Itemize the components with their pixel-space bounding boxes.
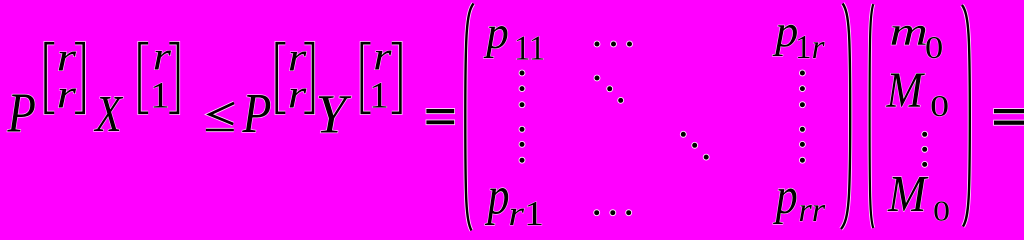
- superscript bracket [r r] after second P: [277, 43, 313, 113]
- svg-text:Y: Y: [316, 83, 352, 144]
- svg-text:1: 1: [369, 76, 389, 116]
- less-or-equal sign: [206, 103, 234, 130]
- svg-text:0: 0: [930, 88, 949, 123]
- vector entry M (row r): M: [887, 166, 929, 223]
- svg-text:r: r: [57, 72, 77, 117]
- vdots column 1 upper: [519, 70, 526, 109]
- vdots column 1 lower: [519, 126, 526, 164]
- vector vdots: [921, 131, 928, 168]
- vector left parenthesis: [870, 4, 874, 228]
- svg-text:r: r: [288, 72, 307, 117]
- superscript r (bracket 4): [373, 35, 392, 79]
- vdots column r lower: [799, 126, 806, 164]
- ddots lower: [680, 131, 710, 161]
- svg-text:r: r: [373, 35, 392, 79]
- svg-text:p: p: [772, 5, 798, 56]
- superscript bracket [r r] after first P: [46, 43, 84, 113]
- cdots row 1: [594, 41, 633, 48]
- matrix entry p_1r: subscript 1r: [795, 29, 825, 66]
- svg-text:1: 1: [150, 76, 170, 116]
- cdots row r: [593, 209, 632, 216]
- matrix entry p_r1: subscript r1: [508, 195, 544, 233]
- matrix left parenthesis: [465, 4, 473, 231]
- svg-text:0: 0: [925, 30, 943, 65]
- matrix entry p_11: subscript 11: [514, 29, 545, 68]
- svg-text:p: p: [485, 166, 510, 226]
- svg-text:X: X: [93, 85, 123, 143]
- matrix entry p_1r: p: [772, 5, 798, 56]
- vector entry M (row 2): subscript 0: [930, 88, 949, 123]
- superscript bracket [r 1] after Y: [362, 43, 401, 113]
- svg-text:p: p: [773, 168, 798, 225]
- matrix right parenthesis: [841, 4, 850, 230]
- superscript r (top, bracket 1): [57, 35, 77, 80]
- letter P (second): [241, 83, 271, 145]
- vector entry M (row r): subscript 0: [933, 195, 950, 227]
- vector right parenthesis: [962, 5, 970, 227]
- superscript bracket [r 1] after X: [140, 43, 179, 113]
- svg-text:r: r: [153, 35, 172, 79]
- svg-text:M: M: [886, 63, 926, 119]
- svg-text:rr: rr: [798, 191, 826, 229]
- ddots upper: [594, 75, 625, 104]
- vector entry m: m: [889, 9, 928, 53]
- superscript 1 (bracket 4): [369, 76, 389, 116]
- matrix entry p_rr: subscript rr: [798, 191, 826, 229]
- svg-text:P: P: [7, 83, 36, 145]
- svg-text:P: P: [241, 83, 271, 145]
- letter X: [93, 85, 123, 143]
- superscript r (bottom, bracket 1): [57, 72, 77, 117]
- svg-text:1r: 1r: [795, 29, 825, 66]
- svg-text:p: p: [483, 6, 509, 58]
- matrix entry p_rr: p: [773, 168, 798, 225]
- vector entry M (row 2): M: [886, 63, 926, 119]
- vdots column r upper: [799, 70, 806, 109]
- equals sign (trailing, clipped): [993, 108, 1024, 126]
- svg-text:0: 0: [933, 195, 950, 227]
- svg-text:M: M: [887, 166, 929, 223]
- superscript r (bracket 2): [153, 35, 172, 79]
- superscript r (bottom, bracket 3): [288, 72, 307, 117]
- svg-text:11: 11: [514, 29, 545, 68]
- superscript 1 (bracket 2): [150, 76, 170, 116]
- matrix entry p_11: p: [483, 6, 509, 58]
- superscript r (top, bracket 3): [288, 35, 307, 80]
- equals sign (before matrix): [426, 108, 455, 125]
- vector entry m: subscript 0: [925, 30, 943, 65]
- letter P (first): [7, 83, 36, 145]
- letter Y: [316, 83, 352, 144]
- svg-text:r1: r1: [508, 195, 544, 233]
- svg-text:m: m: [889, 9, 928, 53]
- matrix entry p_r1: p: [485, 166, 510, 226]
